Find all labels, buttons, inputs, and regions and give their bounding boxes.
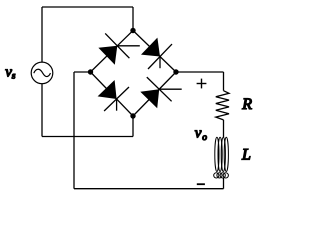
wire: left vertical down to source top: [41, 7, 43, 62]
node top: [130, 28, 135, 33]
wire: right node to load: [176, 71, 224, 73]
wire: top horizontal: [42, 6, 133, 8]
wire: between R and L: [223, 120, 225, 137]
node left: [88, 69, 93, 74]
wire: bottom horizontal: [74, 188, 224, 190]
plus sign: [197, 79, 207, 89]
node bottom: [130, 113, 135, 118]
minus sign: [197, 183, 205, 185]
thyristor Q2 (B to R arm): [133, 72, 182, 116]
svg-text:R: R: [241, 96, 252, 113]
AC source vs (sine inside circle): [31, 62, 53, 84]
svg-text:s: s: [12, 71, 16, 81]
svg-text:o: o: [202, 133, 207, 143]
wire: bottom-left horizontal: [42, 136, 133, 138]
wire: drop to top node: [132, 7, 134, 31]
inductor L: [214, 137, 229, 178]
wire: tall left vertical: [73, 72, 75, 189]
wire: source bottom down: [41, 84, 43, 137]
node right: [173, 69, 178, 74]
wire: left node stub: [74, 71, 91, 73]
wire: load top drop: [223, 72, 225, 91]
wire: inductor bottom: [223, 178, 225, 189]
thyristor Q1 (L to T arm): [91, 31, 140, 73]
resistor R: [216, 91, 229, 120]
wire: up to bottom node: [132, 116, 134, 137]
thyristor Q3 (T to R arm): [133, 31, 176, 73]
svg-text:L: L: [241, 147, 251, 164]
thyristor Q4 (L to B arm): [91, 72, 134, 116]
svg-text:v: v: [195, 126, 202, 142]
